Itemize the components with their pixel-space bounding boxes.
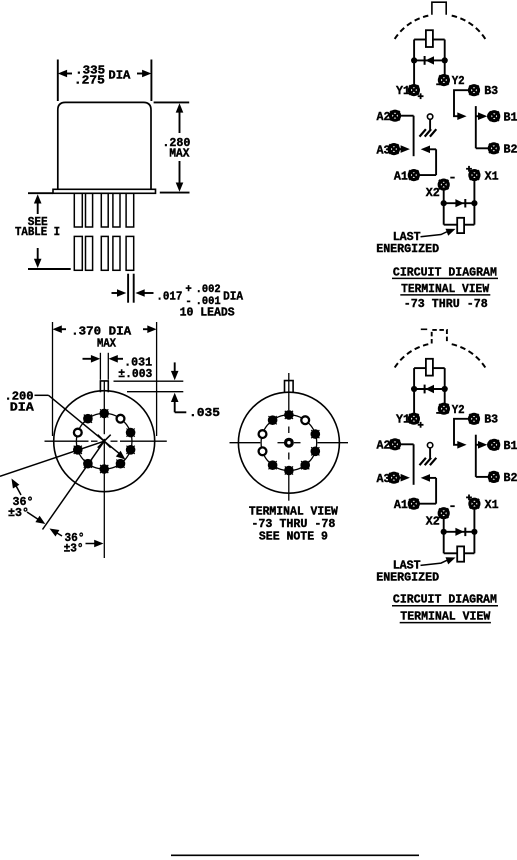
svg-text:B1: B1 — [504, 111, 517, 125]
svg-text:B2: B2 — [504, 471, 517, 485]
svg-text:Y1: Y1 — [396, 413, 410, 427]
svg-text:X2: X2 — [426, 186, 440, 200]
svg-text:TERMINAL VIEW: TERMINAL VIEW — [401, 282, 490, 296]
svg-text:MAX: MAX — [97, 337, 117, 351]
svg-text:A3: A3 — [377, 143, 391, 157]
svg-text:.002: .002 — [196, 284, 221, 296]
svg-text:B3: B3 — [484, 413, 498, 427]
svg-text:X2: X2 — [426, 515, 440, 529]
svg-text:+: + — [185, 284, 191, 296]
svg-text:TABLE I: TABLE I — [15, 225, 60, 239]
svg-text:B2: B2 — [504, 142, 517, 156]
svg-text:±3°: ±3° — [8, 506, 29, 520]
svg-text:A1: A1 — [394, 169, 408, 183]
svg-text:B3: B3 — [484, 84, 498, 98]
svg-text:Y1: Y1 — [396, 84, 410, 98]
svg-text:X1: X1 — [485, 498, 499, 512]
svg-text:±3°: ±3° — [64, 542, 84, 556]
svg-text:X1: X1 — [485, 169, 499, 183]
svg-text:.017: .017 — [156, 290, 182, 304]
svg-text:DIA: DIA — [10, 400, 35, 414]
svg-text:TERMINAL VIEW: TERMINAL VIEW — [400, 610, 491, 624]
svg-text:SEE NOTE 9: SEE NOTE 9 — [259, 530, 328, 544]
svg-text:.275: .275 — [74, 74, 105, 88]
svg-text:A1: A1 — [394, 498, 408, 512]
svg-text:B1: B1 — [504, 439, 517, 453]
svg-text:MAX: MAX — [169, 147, 190, 161]
svg-text:CIRCUIT DIAGRAM: CIRCUIT DIAGRAM — [393, 593, 497, 607]
svg-text:A2: A2 — [377, 110, 391, 124]
svg-text:DIA: DIA — [223, 290, 244, 304]
svg-text:±.003: ±.003 — [118, 367, 152, 381]
svg-text:CIRCUIT DIAGRAM: CIRCUIT DIAGRAM — [393, 265, 497, 279]
svg-text:DIA: DIA — [108, 69, 131, 83]
svg-text:A2: A2 — [377, 439, 391, 453]
svg-text:.035: .035 — [189, 406, 220, 420]
svg-text:A3: A3 — [377, 472, 391, 486]
svg-text:10 LEADS: 10 LEADS — [180, 305, 235, 319]
svg-text:ENERGIZED: ENERGIZED — [376, 571, 439, 585]
svg-text:-73 THRU -78: -73 THRU -78 — [404, 297, 488, 311]
svg-text:Y2: Y2 — [452, 403, 465, 417]
svg-text:Y2: Y2 — [452, 74, 465, 88]
svg-text:ENERGIZED: ENERGIZED — [376, 242, 439, 256]
